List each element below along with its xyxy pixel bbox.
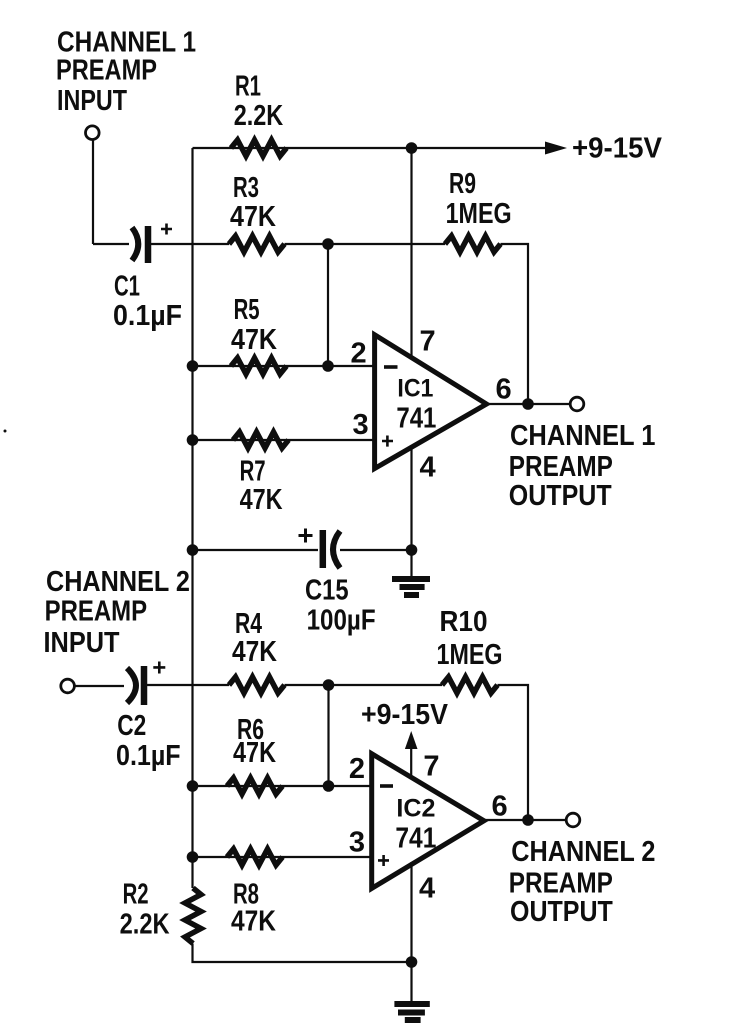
label R1	[234, 71, 284, 132]
node CHANNEL 1 PREAMP INPUT label	[56, 27, 196, 117]
power arrow +9-15V	[545, 142, 567, 155]
label R8	[231, 879, 276, 938]
svg-text:IC1: IC1	[397, 375, 433, 402]
resistor R3	[229, 236, 285, 252]
junction: pin2 node	[322, 360, 334, 372]
label R5	[231, 294, 277, 356]
capacitor C1	[132, 228, 138, 261]
wire: R10 to feedback corner	[498, 685, 529, 820]
svg-text:741: 741	[395, 823, 436, 855]
svg-text:PREAMP: PREAMP	[509, 451, 613, 483]
minus sign IC2	[380, 784, 393, 788]
svg-text:R1: R1	[235, 71, 261, 103]
terminal: channel 2 input	[61, 679, 75, 693]
resistor R6	[227, 778, 283, 794]
junction: top rail / pin7	[406, 142, 418, 154]
wire: C2 to R4	[147, 684, 229, 686]
resistor R8	[227, 849, 283, 865]
label R10	[437, 606, 503, 671]
wire: ch1 input vertical	[92, 140, 94, 244]
svg-text:0.1µF: 0.1µF	[113, 300, 182, 332]
svg-text:47K: 47K	[233, 737, 276, 769]
junction: pin4/ground row	[406, 956, 418, 968]
plus sign C15	[299, 529, 313, 543]
svg-text:R10: R10	[440, 606, 488, 638]
svg-text:C2: C2	[117, 710, 146, 742]
svg-text:3: 3	[353, 409, 369, 441]
svg-text:47K: 47K	[232, 636, 277, 668]
svg-text:INPUT: INPUT	[57, 85, 127, 117]
svg-text:PREAMP: PREAMP	[56, 55, 157, 87]
label R3	[230, 172, 276, 233]
svg-text:R9: R9	[449, 168, 476, 200]
speck	[4, 430, 7, 433]
wire: bus bottom to ground row	[193, 944, 412, 963]
junction: output/feedback IC2	[522, 814, 534, 826]
junction: R4/R6 node	[323, 679, 335, 691]
junction: bus/R7	[187, 434, 199, 446]
junction: bus/R8	[187, 851, 199, 863]
plus sign IC2	[378, 855, 389, 866]
svg-text:2: 2	[351, 338, 367, 370]
wire: ch2 input to C2	[75, 685, 125, 687]
svg-text:+9-15V: +9-15V	[361, 699, 449, 731]
svg-text:47K: 47K	[231, 324, 277, 356]
junction: bus/R5	[187, 360, 199, 372]
svg-text:1MEG: 1MEG	[446, 198, 512, 230]
svg-text:100µF: 100µF	[307, 604, 376, 636]
resistor R10	[442, 677, 498, 693]
svg-text:PREAMP: PREAMP	[509, 867, 613, 899]
wire: IC2 output	[484, 819, 566, 821]
svg-text:6: 6	[496, 374, 512, 406]
svg-text:6: 6	[492, 791, 508, 823]
pin label 2 IC1	[351, 326, 512, 484]
op-amp IC1	[375, 335, 487, 469]
capacitor C15	[320, 530, 327, 568]
capacitor C2	[127, 668, 136, 703]
svg-text:+9-15V: +9-15V	[572, 132, 663, 164]
plus sign C1	[161, 224, 172, 235]
svg-text:OUTPUT: OUTPUT	[509, 480, 612, 512]
wire: C15 row	[193, 549, 319, 551]
svg-text:4: 4	[419, 873, 435, 905]
terminal: channel 1 output	[570, 397, 584, 411]
svg-text:CHANNEL 2: CHANNEL 2	[46, 566, 190, 598]
svg-text:IC2: IC2	[396, 795, 435, 822]
wire: pin 4 vertical IC2	[410, 862, 412, 962]
wire: R8 row pin3 IC2	[193, 856, 372, 858]
resistor R9	[445, 236, 501, 252]
wire: R5 row pin 2	[193, 365, 375, 367]
label +9-15V ch2	[361, 699, 449, 731]
svg-text:741: 741	[396, 403, 436, 435]
svg-text:2.2K: 2.2K	[120, 908, 170, 940]
power arrow up ch2 pin7	[405, 731, 418, 749]
resistor R5	[231, 358, 287, 374]
wire: R7 row pin 3	[193, 439, 375, 441]
terminal: channel 2 output	[566, 813, 580, 827]
svg-text:47K: 47K	[231, 905, 276, 937]
label R6	[233, 714, 276, 769]
wire: vertical node to pin2	[327, 244, 329, 366]
svg-text:7: 7	[420, 326, 436, 358]
label CHANNEL 1 PREAMP OUTPUT	[509, 420, 656, 512]
left bus vertical	[191, 148, 193, 888]
label C2	[116, 710, 181, 772]
op-amp IC2	[372, 754, 484, 889]
junction: output/feedback	[522, 398, 534, 410]
wire: R6 row pin2 IC2	[193, 785, 372, 787]
svg-text:2: 2	[349, 753, 365, 785]
svg-text:CHANNEL 1: CHANNEL 1	[510, 420, 655, 452]
terminal: channel 1 input	[86, 126, 100, 140]
svg-text:CHANNEL 2: CHANNEL 2	[511, 836, 655, 868]
svg-text:R7: R7	[240, 455, 266, 487]
resistor R7	[233, 432, 289, 448]
ground: bottom	[394, 1001, 429, 1007]
node CHANNEL 2 PREAMP INPUT label	[44, 566, 190, 659]
label C15	[305, 575, 376, 637]
junction: C15/pin4	[406, 544, 418, 556]
svg-text:2.2K: 2.2K	[234, 100, 284, 132]
wire: vertical node to pin2 IC2	[327, 685, 329, 786]
junction: R3/R5 node	[322, 238, 334, 250]
wire: pin 7 vertical IC1	[410, 148, 412, 358]
svg-text:R5: R5	[234, 294, 260, 326]
svg-text:OUTPUT: OUTPUT	[510, 896, 613, 928]
svg-text:47K: 47K	[240, 484, 283, 516]
plus sign IC1	[382, 436, 393, 447]
wire: R3 to R9	[285, 243, 446, 245]
wire: pin 4 vertical IC1	[410, 448, 412, 576]
minus sign IC1	[384, 365, 398, 369]
label R7	[240, 455, 283, 516]
svg-text:C15: C15	[305, 575, 349, 607]
label R9	[446, 168, 512, 230]
wire: R9 to feedback corner	[501, 244, 529, 404]
junction: bus/C15	[187, 544, 199, 556]
svg-text:INPUT: INPUT	[44, 627, 120, 659]
svg-text:R3: R3	[233, 172, 259, 204]
svg-text:3: 3	[349, 827, 365, 859]
label CHANNEL 2 PREAMP OUTPUT	[509, 836, 656, 928]
ground: C15	[392, 576, 430, 582]
svg-text:R2: R2	[123, 879, 149, 911]
svg-text:7: 7	[423, 751, 439, 783]
svg-text:47K: 47K	[230, 201, 276, 233]
wire: R4 to R10	[285, 684, 443, 686]
junction: bus/R6	[187, 780, 199, 792]
wire: C1 to R3	[151, 243, 229, 245]
resistor R4	[229, 677, 285, 693]
label R2	[120, 879, 170, 941]
svg-text:4: 4	[420, 452, 436, 484]
label R4	[232, 608, 277, 668]
wire: ch1 input to C1	[93, 243, 129, 245]
svg-text:1MEG: 1MEG	[437, 639, 503, 671]
junction: pin2 node IC2	[323, 780, 335, 792]
svg-text:0.1µF: 0.1µF	[116, 740, 181, 772]
svg-text:C1: C1	[114, 271, 140, 303]
wire: down to ground 2	[410, 962, 412, 1001]
resistor R2 vertical	[185, 888, 201, 944]
plus sign C2	[153, 662, 165, 674]
svg-text:PREAMP: PREAMP	[45, 596, 148, 628]
wire: IC1 output	[487, 403, 570, 405]
resistor R1	[231, 140, 287, 156]
wire: top rail	[193, 147, 548, 149]
label C1	[113, 271, 182, 332]
